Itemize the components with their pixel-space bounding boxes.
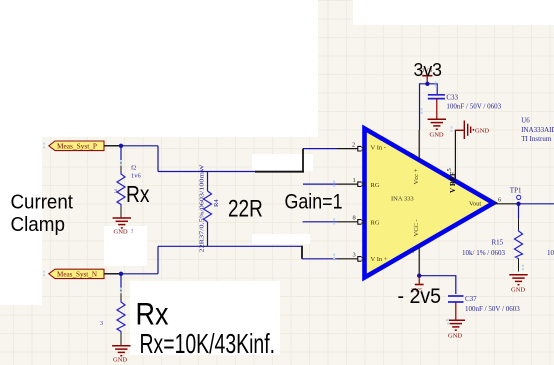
resistor R2 (Rx upper) (114, 146, 142, 218)
ground below C37 (447, 320, 465, 339)
svg-text:Rx: Rx (126, 181, 150, 207)
black wire drop to pin 3 (301, 246, 303, 259)
wire output to R15 (518, 204, 520, 219)
partial value text right edge (547, 249, 554, 257)
svg-text:GND: GND (475, 127, 489, 134)
svg-text:C37: C37 (465, 295, 477, 303)
svg-text:Gain=1: Gain=1 (285, 191, 343, 214)
white mask top-left (0, 0, 318, 137)
svg-text:f2: f2 (131, 165, 136, 172)
sideways ground at VREF (455, 121, 490, 140)
wire top horizontal to op-amp (158, 171, 304, 173)
white mask behind Rx annotation (130, 281, 280, 355)
resistor Rx lower (100, 274, 125, 345)
wire from port P to junction (104, 145, 158, 147)
junction at 3v3 (425, 82, 429, 86)
op-amp U6 INA333 triangle (365, 129, 494, 278)
svg-text:GND: GND (448, 333, 462, 340)
pin 6 Vout output wire (494, 196, 519, 204)
ground below Rx lower (112, 346, 130, 364)
svg-text:GND: GND (511, 287, 525, 294)
annotation Gain=1 (285, 191, 343, 214)
svg-text:TI Instrum: TI Instrum (521, 135, 552, 143)
wire bottom horizontal to op-amp (158, 245, 302, 247)
pin 7 Vcc+ (410, 130, 419, 160)
port Meas_Syst_P (49, 141, 104, 151)
svg-text:10: 10 (547, 249, 554, 257)
power port 3v3 (421, 67, 432, 83)
pin 8 RG (303, 215, 365, 225)
capacitor C33 (428, 94, 502, 111)
grid snap markers (43, 81, 524, 324)
white mask above lower wire (252, 234, 310, 244)
svg-text:3: 3 (114, 189, 117, 195)
svg-text:7: 7 (410, 152, 417, 156)
junction at pin 4 (417, 274, 421, 278)
svg-text:1: 1 (353, 177, 356, 184)
svg-text:VCC -: VCC - (413, 219, 420, 236)
annotation Current Clamp (11, 191, 74, 236)
svg-text:3: 3 (100, 321, 103, 327)
wire to pin 3 (302, 258, 337, 260)
wire N corner up (157, 246, 159, 273)
svg-text:R4: R4 (213, 199, 220, 207)
svg-text:3v3: 3v3 (414, 60, 443, 80)
svg-text:1v6: 1v6 (131, 173, 142, 180)
wire from port N to junction (104, 273, 158, 275)
annotation 3v3 (414, 60, 443, 80)
svg-text:INA 333: INA 333 (391, 196, 414, 203)
svg-text:Vout: Vout (469, 200, 481, 207)
black wire riser to pin 2 (302, 149, 304, 173)
pin 2 V In- (337, 141, 365, 151)
annotation Rx lower (136, 295, 169, 331)
pin 5 VREF (446, 160, 455, 181)
ground below R15 (509, 275, 527, 294)
junction node P (119, 144, 123, 148)
svg-text:100nF / 50V / 0603: 100nF / 50V / 0603 (446, 102, 501, 110)
svg-text:C33: C33 (446, 94, 458, 102)
black overlay wire top (255, 171, 304, 173)
resistor R15 (462, 219, 523, 272)
test point TP1 (510, 186, 522, 199)
svg-text:8: 8 (353, 215, 356, 222)
svg-text:Vcc +: Vcc + (413, 168, 420, 184)
wire 3v3 to C33 (427, 84, 437, 94)
wire C37 to ground (455, 302, 457, 320)
svg-text:GND: GND (430, 131, 444, 138)
U6 designator block (521, 117, 554, 143)
capacitor C37 (448, 295, 520, 313)
svg-text:R15: R15 (492, 238, 504, 246)
annotation -2v5 (398, 285, 442, 308)
wire 3v3 to pin 7 (420, 84, 428, 130)
wire C33 to ground (436, 99, 438, 119)
svg-text:Rx: Rx (136, 295, 169, 331)
junction at output (516, 202, 520, 206)
wire to pin 2 (303, 148, 337, 150)
svg-text:100nF / 50V / 0603: 100nF / 50V / 0603 (465, 305, 520, 313)
svg-text:U6: U6 (521, 117, 530, 125)
svg-text:22R37/0.5%/0603/100mW: 22R37/0.5%/0603/100mW (199, 163, 206, 252)
svg-text:6: 6 (498, 196, 502, 203)
resistor R4 22R between rails (199, 163, 221, 252)
ground below C33 (428, 119, 446, 138)
annotation Rx value formula (140, 328, 276, 359)
pin 4 VCC- (410, 247, 420, 276)
white mask top-right (353, 0, 554, 25)
svg-text:TP1: TP1 (510, 186, 522, 194)
svg-text:3: 3 (353, 252, 356, 259)
svg-text:Meas_Syst_P: Meas_Syst_P (57, 143, 97, 151)
wire P corner down (157, 146, 159, 172)
junction node N (119, 272, 123, 276)
svg-text:22R: 22R (228, 195, 263, 222)
svg-text:Rx=10K/43Kinf.: Rx=10K/43Kinf. (140, 328, 276, 359)
svg-text:RG: RG (371, 220, 380, 227)
power port -2V5 (411, 276, 424, 294)
output wire to right edge (519, 203, 554, 205)
svg-text:10k/ 1% / 0603: 10k/ 1% / 0603 (462, 249, 505, 257)
svg-text:GND: GND (113, 357, 127, 364)
wire pin4 junction to C37 (419, 276, 456, 294)
svg-text:!: ! (131, 228, 133, 235)
white mask near GND of R2 (104, 226, 147, 266)
svg-text:Meas_Syst_N: Meas_Syst_N (57, 271, 97, 279)
svg-text:INA333AID: INA333AID (521, 126, 554, 134)
svg-text:V In +: V In + (371, 256, 388, 263)
svg-text:GND: GND (114, 229, 128, 236)
ground below R2 (113, 218, 134, 236)
white mask left strip (0, 137, 42, 305)
svg-text:V In -: V In - (371, 145, 386, 152)
port Meas_Syst_N (49, 269, 104, 278)
pin 3 V In+ (337, 252, 365, 262)
svg-text:5: 5 (446, 168, 453, 171)
svg-text:2: 2 (352, 141, 355, 148)
annotation 22R (228, 195, 263, 222)
pin 1 RG (303, 177, 365, 187)
svg-text:- 2v5: - 2v5 (398, 285, 442, 308)
svg-text:Current: Current (11, 191, 74, 213)
white mask above upper wire (252, 154, 313, 171)
annotation Rx upper (126, 181, 150, 207)
svg-text:Clamp: Clamp (11, 214, 66, 236)
svg-text:RG: RG (371, 182, 380, 189)
wire VREF ground to pin 5 (454, 130, 456, 160)
